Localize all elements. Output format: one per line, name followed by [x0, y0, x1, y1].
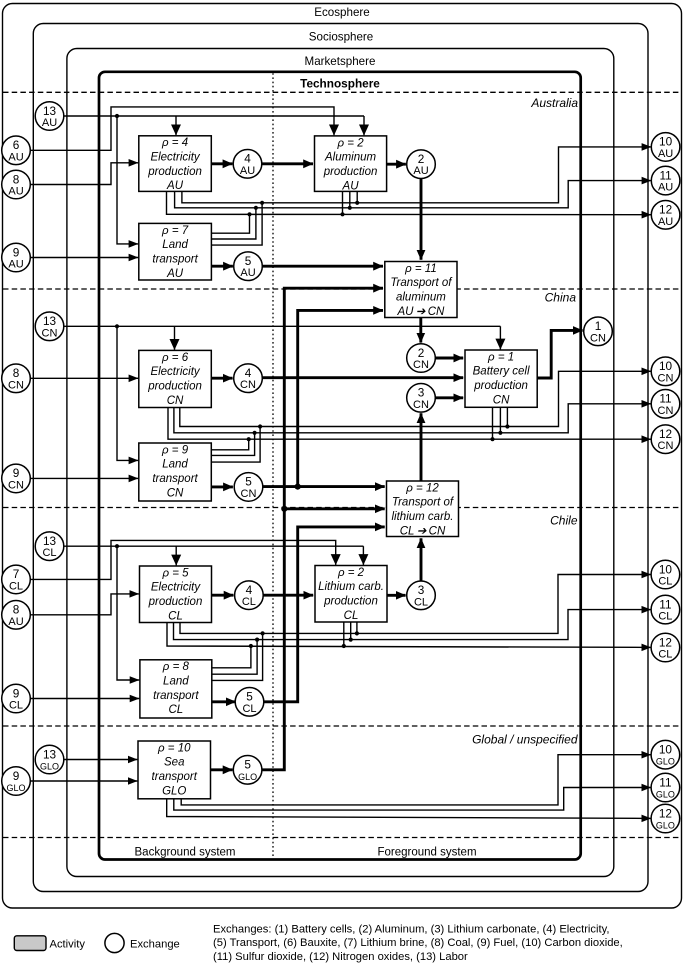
svg-text:Battery cell: Battery cell: [473, 366, 530, 378]
svg-text:CL: CL: [9, 580, 23, 592]
svg-text:Background system: Background system: [135, 847, 236, 859]
svg-text:CN: CN: [42, 327, 58, 339]
svg-text:12: 12: [659, 806, 672, 820]
svg-text:5: 5: [244, 758, 251, 772]
svg-text:10: 10: [659, 562, 673, 576]
svg-text:Land: Land: [163, 676, 189, 688]
svg-text:5: 5: [245, 254, 252, 268]
svg-text:4: 4: [244, 152, 251, 166]
svg-text:9: 9: [13, 245, 20, 259]
svg-text:transport: transport: [152, 771, 198, 783]
svg-text:ρ = 5: ρ = 5: [161, 567, 189, 579]
svg-text:AU: AU: [658, 148, 673, 160]
svg-text:AU: AU: [342, 180, 360, 192]
svg-text:ρ = 11: ρ = 11: [404, 263, 437, 275]
svg-text:CL: CL: [344, 610, 359, 622]
svg-text:ρ = 9: ρ = 9: [161, 444, 189, 456]
svg-text:CN: CN: [240, 379, 256, 391]
svg-text:CN: CN: [658, 405, 674, 417]
svg-text:10: 10: [659, 359, 673, 373]
svg-text:Sociosphere: Sociosphere: [309, 31, 373, 44]
svg-text:13: 13: [43, 747, 57, 761]
svg-text:CN: CN: [658, 372, 674, 384]
svg-text:AU: AU: [8, 259, 23, 271]
svg-text:CN: CN: [493, 394, 510, 406]
svg-text:3: 3: [418, 583, 425, 597]
svg-text:8: 8: [13, 172, 20, 186]
svg-text:13: 13: [43, 534, 57, 548]
svg-text:4: 4: [245, 366, 252, 380]
svg-text:1: 1: [595, 319, 602, 333]
svg-text:Sea: Sea: [164, 757, 184, 769]
svg-text:ρ = 2: ρ = 2: [337, 567, 365, 579]
svg-text:CL: CL: [658, 649, 672, 661]
svg-text:5: 5: [246, 690, 253, 704]
svg-text:CL: CL: [9, 700, 23, 712]
svg-text:CN: CN: [658, 440, 674, 452]
svg-text:7: 7: [13, 567, 20, 581]
svg-text:CN: CN: [241, 488, 257, 500]
svg-text:(11) Sulfur dioxide, (12) Nitr: (11) Sulfur dioxide, (12) Nitrogen oxide…: [213, 951, 468, 963]
svg-text:CN: CN: [413, 359, 429, 371]
svg-text:9: 9: [13, 686, 20, 700]
svg-text:10: 10: [659, 743, 673, 757]
svg-text:CL: CL: [658, 576, 672, 588]
svg-text:Lithium carb.: Lithium carb.: [318, 581, 384, 593]
svg-text:production: production: [323, 166, 378, 178]
svg-text:transport: transport: [152, 473, 198, 485]
svg-text:CL: CL: [242, 596, 256, 608]
svg-text:AU: AU: [42, 117, 57, 129]
svg-text:Foreground system: Foreground system: [377, 847, 476, 859]
svg-text:Marketsphere: Marketsphere: [305, 55, 376, 68]
svg-text:CN: CN: [167, 395, 184, 407]
svg-text:Electricity: Electricity: [150, 152, 200, 164]
svg-text:13: 13: [43, 314, 57, 328]
svg-text:Exchange: Exchange: [130, 938, 180, 950]
svg-text:AU: AU: [413, 165, 428, 177]
svg-text:11: 11: [659, 168, 671, 182]
svg-text:5: 5: [245, 475, 252, 489]
svg-text:GLO: GLO: [238, 772, 257, 782]
svg-text:CL: CL: [42, 547, 56, 559]
svg-text:12: 12: [659, 635, 672, 649]
svg-text:transport: transport: [153, 690, 199, 702]
svg-text:GLO: GLO: [656, 790, 675, 800]
svg-text:11: 11: [659, 392, 671, 406]
svg-text:transport: transport: [152, 253, 198, 265]
svg-text:12: 12: [659, 203, 672, 217]
svg-text:GLO: GLO: [40, 762, 59, 772]
svg-text:CN: CN: [8, 479, 24, 491]
svg-text:AU: AU: [8, 616, 23, 628]
svg-text:3: 3: [418, 386, 425, 400]
svg-text:11: 11: [659, 597, 671, 611]
svg-text:GLO: GLO: [162, 785, 186, 797]
svg-text:Australia: Australia: [530, 96, 578, 110]
svg-text:AU ➔ CN: AU ➔ CN: [396, 306, 445, 318]
svg-text:aluminum: aluminum: [396, 292, 446, 304]
svg-text:Global / unspecified: Global / unspecified: [472, 733, 578, 747]
svg-text:2: 2: [418, 346, 425, 360]
svg-text:ρ = 4: ρ = 4: [161, 137, 188, 149]
svg-text:CL: CL: [168, 610, 183, 622]
svg-text:Technosphere: Technosphere: [300, 76, 380, 90]
svg-text:10: 10: [659, 135, 673, 149]
svg-text:Activity: Activity: [50, 938, 86, 950]
svg-text:AU: AU: [166, 180, 184, 192]
svg-text:8: 8: [13, 603, 20, 617]
svg-text:CN: CN: [8, 379, 24, 391]
svg-text:AU: AU: [240, 267, 255, 279]
svg-text:lithium carb.: lithium carb.: [392, 511, 454, 523]
svg-text:ρ = 1: ρ = 1: [487, 351, 514, 363]
svg-text:ρ = 6: ρ = 6: [161, 352, 189, 364]
svg-text:9: 9: [13, 769, 20, 783]
svg-text:GLO: GLO: [656, 821, 675, 831]
svg-text:CN: CN: [413, 399, 429, 411]
svg-text:AU: AU: [8, 186, 23, 198]
svg-text:8: 8: [13, 366, 20, 380]
svg-text:production: production: [147, 380, 202, 392]
svg-text:AU: AU: [658, 216, 673, 228]
svg-text:13: 13: [43, 104, 57, 118]
svg-text:production: production: [147, 166, 202, 178]
svg-text:production: production: [148, 596, 203, 608]
svg-text:Electricity: Electricity: [151, 582, 201, 594]
svg-text:Ecosphere: Ecosphere: [314, 6, 369, 19]
svg-text:Aluminum: Aluminum: [324, 152, 377, 164]
svg-text:11: 11: [659, 775, 671, 789]
svg-text:Transport of: Transport of: [390, 277, 453, 289]
svg-text:Land: Land: [162, 459, 188, 471]
svg-text:CL: CL: [658, 611, 672, 623]
svg-text:China: China: [545, 291, 577, 305]
svg-text:Transport of: Transport of: [392, 497, 455, 509]
svg-text:CL: CL: [242, 703, 256, 715]
svg-text:AU: AU: [240, 165, 255, 177]
svg-text:AU: AU: [8, 151, 23, 163]
svg-text:12: 12: [659, 427, 672, 441]
svg-text:6: 6: [13, 138, 20, 152]
svg-text:Exchanges: (1) Battery cells,: Exchanges: (1) Battery cells, (2) Alumin…: [213, 923, 609, 935]
svg-text:production: production: [473, 380, 528, 392]
svg-text:Electricity: Electricity: [150, 366, 200, 378]
svg-text:production: production: [323, 596, 378, 608]
svg-text:4: 4: [246, 583, 253, 597]
svg-text:CL: CL: [168, 704, 183, 716]
svg-text:GLO: GLO: [6, 783, 25, 793]
svg-text:CL ➔ CN: CL ➔ CN: [400, 525, 446, 537]
svg-text:AU: AU: [658, 182, 673, 194]
svg-text:CL: CL: [414, 596, 428, 608]
svg-text:ρ = 2: ρ = 2: [337, 137, 365, 149]
svg-text:CN: CN: [167, 487, 184, 499]
svg-text:Chile: Chile: [550, 514, 578, 528]
svg-text:ρ = 12: ρ = 12: [405, 482, 439, 494]
svg-text:(5) Transport, (6) Bauxite, (7: (5) Transport, (6) Bauxite, (7) Lithium …: [213, 937, 623, 949]
svg-text:GLO: GLO: [656, 757, 675, 767]
svg-text:9: 9: [13, 466, 20, 480]
svg-text:AU: AU: [166, 268, 184, 280]
svg-text:ρ = 8: ρ = 8: [162, 661, 190, 673]
svg-text:CN: CN: [590, 332, 606, 344]
svg-text:ρ = 10: ρ = 10: [157, 742, 191, 754]
svg-text:ρ = 7: ρ = 7: [161, 225, 189, 237]
svg-text:Land: Land: [162, 239, 188, 251]
svg-text:2: 2: [418, 152, 425, 166]
